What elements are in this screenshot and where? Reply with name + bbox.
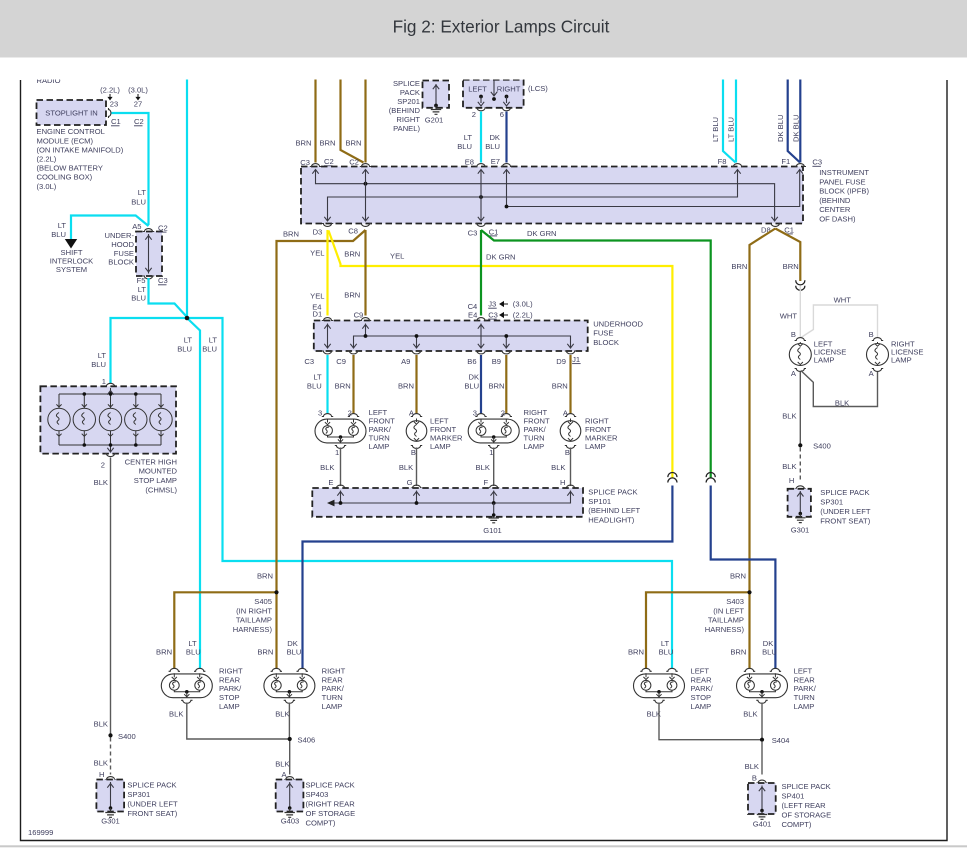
- svg-text:(UNDER LEFT: (UNDER LEFT: [127, 800, 178, 809]
- svg-text:G401: G401: [753, 820, 772, 829]
- net IPFB E8 to C3/C1: [478, 170, 484, 222]
- label BRN: [156, 647, 172, 656]
- label pin B: [752, 774, 757, 783]
- node splice S406: [288, 735, 316, 744]
- wire BRN C8 to underhood C9: [364, 230, 366, 316]
- label pin 6: [500, 110, 504, 119]
- svg-text:HARNESS): HARNESS): [233, 625, 273, 634]
- label BLK: [835, 398, 849, 407]
- svg-text:SYSTEM: SYSTEM: [56, 265, 87, 274]
- svg-text:J1: J1: [572, 355, 580, 364]
- svg-text:SP101: SP101: [588, 497, 611, 506]
- svg-text:2: 2: [501, 408, 505, 417]
- connector inline YEL to DK BLU: [668, 473, 677, 483]
- label G301: [791, 526, 810, 535]
- svg-text:LT: LT: [464, 133, 473, 142]
- wire LT BLU feed a: [723, 70, 736, 163]
- svg-text:C9: C9: [354, 311, 364, 320]
- svg-text:SP301: SP301: [820, 498, 843, 507]
- label BLK: [169, 710, 183, 719]
- wire LT BLU feed b: [735, 70, 737, 163]
- svg-text:DK: DK: [287, 639, 298, 648]
- label E4 pin: [312, 302, 321, 311]
- wire BRN radio feed 2: [341, 70, 364, 163]
- label C2 pin: [349, 158, 359, 167]
- svg-text:INSTRUMENT: INSTRUMENT: [819, 168, 869, 177]
- wire LT BLU from radio: [186, 70, 188, 318]
- svg-text:BLU: BLU: [464, 381, 479, 390]
- node splice S400: [108, 732, 135, 741]
- svg-text:LT: LT: [184, 336, 193, 345]
- label B9 pin: [492, 357, 501, 366]
- label BRN: [398, 381, 414, 390]
- label B: [565, 448, 570, 457]
- svg-text:BLU: BLU: [51, 230, 66, 239]
- label C3 connector 2.2L: [488, 311, 533, 320]
- label D9 pin: [556, 357, 566, 366]
- wire BRN S403 to left rear stop lamp: [646, 592, 750, 669]
- svg-text:DK BLU: DK BLU: [776, 115, 785, 142]
- svg-text:BLU: BLU: [485, 142, 500, 151]
- label BRN: [344, 290, 360, 299]
- label G101: [483, 526, 502, 535]
- svg-text:CENTER: CENTER: [819, 205, 851, 214]
- label BRN: [257, 647, 273, 656]
- svg-text:G101: G101: [483, 526, 502, 535]
- label C3 pin bottom: [304, 357, 314, 366]
- svg-text:(3.0L): (3.0L): [513, 300, 533, 309]
- wire BRN A9 to left front marker: [415, 355, 417, 414]
- wire LT BLU ECM pin 27 to A5: [112, 113, 149, 225]
- svg-text:FUSE: FUSE: [593, 329, 613, 338]
- svg-text:BLU: BLU: [186, 648, 201, 657]
- svg-text:BRN: BRN: [319, 139, 335, 148]
- label BLK: [275, 759, 289, 768]
- svg-text:BLK: BLK: [94, 759, 108, 768]
- svg-text:TAILLAMP: TAILLAMP: [236, 616, 272, 625]
- svg-text:S403: S403: [726, 597, 744, 606]
- label C4 pin: [468, 302, 478, 311]
- text right front park/turn lamp name: [524, 408, 551, 451]
- svg-text:SP301: SP301: [127, 790, 150, 799]
- svg-text:J3: J3: [488, 300, 496, 309]
- svg-text:H: H: [99, 770, 104, 779]
- label C1 connector: [489, 227, 499, 236]
- label C3 connector: [812, 158, 822, 167]
- node junction LT BLU: [185, 316, 190, 321]
- wire BLK left front park to SP101 E: [340, 448, 342, 487]
- svg-text:1: 1: [102, 377, 106, 386]
- wire DK BLU to right rear turn lamp: [303, 486, 673, 670]
- svg-text:BLU: BLU: [91, 360, 106, 369]
- node splice S404: [760, 736, 790, 745]
- svg-text:SPLICE PACK: SPLICE PACK: [782, 782, 831, 791]
- svg-text:LAMP: LAMP: [524, 442, 545, 451]
- label LT BLU vertical: [727, 117, 736, 142]
- svg-text:LAMP: LAMP: [891, 355, 912, 364]
- svg-text:LAMP: LAMP: [369, 442, 390, 451]
- svg-text:BLU: BLU: [659, 648, 674, 657]
- label G401: [753, 820, 772, 829]
- wire DK BLU feed a: [788, 70, 800, 163]
- label (3.0L) with arrow to pin 27: [128, 86, 148, 109]
- svg-text:DK: DK: [469, 372, 480, 381]
- svg-text:F8: F8: [718, 157, 727, 166]
- wire WHT branch to right license lamp B: [801, 305, 878, 338]
- svg-text:E: E: [328, 478, 333, 487]
- component CHMSL center high mounted stop lamp: [40, 383, 176, 456]
- wire LT BLU C3 to left front park pin3: [326, 355, 328, 414]
- svg-text:LAMP: LAMP: [430, 442, 451, 451]
- svg-text:BLU: BLU: [131, 294, 146, 303]
- svg-text:B: B: [869, 330, 874, 339]
- label G403: [281, 817, 300, 826]
- svg-text:B: B: [791, 330, 796, 339]
- svg-text:STOP: STOP: [691, 693, 712, 702]
- svg-text:BRN: BRN: [257, 571, 273, 580]
- svg-text:1: 1: [489, 448, 493, 457]
- text left front park/turn lamp name: [369, 408, 396, 451]
- svg-text:S405: S405: [254, 597, 272, 606]
- svg-text:PANEL): PANEL): [393, 124, 420, 133]
- wire BLK left rear turn to S404: [761, 703, 763, 740]
- component right rear park/stop lamp: [161, 668, 212, 703]
- label pin F: [483, 478, 488, 487]
- wire BLK right rear turn to S406: [288, 703, 290, 740]
- svg-text:BLU: BLU: [287, 648, 302, 657]
- label BLK: [320, 463, 334, 472]
- svg-text:C2: C2: [324, 157, 334, 166]
- component UNDERHOOD FUSE BLOCK (left): [104, 229, 162, 279]
- svg-text:(2.2L): (2.2L): [100, 86, 120, 95]
- label A: [869, 369, 875, 378]
- label BLK: [476, 463, 490, 472]
- wire YEL D3 to underhood E4/D1: [326, 230, 328, 316]
- svg-text:(IN RIGHT: (IN RIGHT: [236, 606, 272, 615]
- svg-text:SP401: SP401: [782, 792, 805, 801]
- label BRN: [283, 229, 299, 238]
- svg-text:C9: C9: [336, 357, 346, 366]
- net IPFB F8 to D3/E8: [324, 170, 740, 222]
- wire BRN D9 to right front marker: [569, 355, 571, 414]
- label YEL: [310, 291, 324, 300]
- component left front park/turn lamp: [315, 414, 366, 449]
- label BLK: [94, 478, 108, 487]
- component splice pack SP201 behind right panel: [423, 81, 450, 115]
- label BLK: [745, 762, 759, 771]
- label pin 2: [101, 461, 105, 470]
- label DK GRN: [527, 229, 557, 238]
- text SP301 name: [820, 488, 871, 526]
- wire BRN C9 to left front park pin2: [352, 355, 354, 414]
- svg-text:OF STORAGE: OF STORAGE: [306, 809, 356, 818]
- label pin H: [560, 478, 565, 487]
- svg-text:B: B: [411, 448, 416, 457]
- text CHMSL name: [125, 457, 178, 494]
- label F1 pin: [781, 157, 790, 166]
- svg-text:BLK: BLK: [320, 463, 334, 472]
- svg-text:C3: C3: [812, 158, 822, 167]
- label BLK: [743, 710, 757, 719]
- svg-text:BRN: BRN: [283, 229, 299, 238]
- svg-text:(CHMSL): (CHMSL): [145, 486, 177, 495]
- label 169999: [28, 828, 53, 837]
- wire BRN C8 to S405: [277, 230, 366, 591]
- label C3 pin: [468, 228, 478, 237]
- label G301: [101, 817, 120, 826]
- svg-text:RIGHT: RIGHT: [497, 85, 521, 94]
- svg-text:PANEL FUSE: PANEL FUSE: [819, 177, 865, 186]
- svg-text:BRN: BRN: [295, 139, 311, 148]
- text SP401 name: [782, 782, 832, 829]
- label C2 connector: [324, 157, 334, 166]
- component ECM STOPLIGHT IN box: [37, 100, 111, 125]
- label pin G: [407, 478, 413, 487]
- label DK BLU: [287, 639, 302, 657]
- label DK BLU: [485, 133, 500, 151]
- svg-text:LT: LT: [188, 639, 197, 648]
- svg-text:SP403: SP403: [306, 790, 329, 799]
- svg-text:ENGINE CONTROL: ENGINE CONTROL: [37, 127, 105, 136]
- label 1: [335, 448, 339, 457]
- svg-text:(ON INTAKE MANIFOLD): (ON INTAKE MANIFOLD): [37, 145, 124, 154]
- node splice S400: [798, 442, 831, 451]
- svg-text:FUSE: FUSE: [114, 249, 134, 258]
- svg-text:C1: C1: [489, 227, 499, 236]
- svg-text:MOUNTED: MOUNTED: [139, 467, 178, 476]
- svg-text:CENTER HIGH: CENTER HIGH: [125, 457, 177, 466]
- svg-text:(IN LEFT: (IN LEFT: [713, 606, 744, 615]
- svg-text:1: 1: [335, 448, 339, 457]
- svg-text:LT BLU: LT BLU: [727, 117, 736, 142]
- svg-text:(BEHIND LEFT: (BEHIND LEFT: [588, 506, 640, 515]
- svg-text:C3: C3: [304, 357, 314, 366]
- text ECM description: [37, 127, 124, 191]
- svg-text:A5: A5: [132, 222, 141, 231]
- svg-text:STOP: STOP: [219, 693, 240, 702]
- svg-text:(BELOW BATTERY: (BELOW BATTERY: [37, 164, 103, 173]
- label pin A: [282, 770, 288, 779]
- connector inline BRN to WHT: [796, 280, 805, 290]
- label F5: [137, 276, 146, 285]
- svg-text:BRN: BRN: [783, 262, 799, 271]
- svg-text:H: H: [560, 478, 565, 487]
- svg-text:(3.0L): (3.0L): [37, 182, 57, 191]
- label 2: [348, 408, 352, 417]
- component left front marker lamp: [406, 414, 427, 449]
- svg-text:BLU: BLU: [202, 344, 217, 353]
- svg-text:PARK/: PARK/: [322, 684, 345, 693]
- text right rear park/turn lamp name: [322, 666, 346, 711]
- svg-text:S404: S404: [772, 736, 790, 745]
- label YEL: [310, 249, 324, 258]
- svg-text:RIGHT: RIGHT: [396, 115, 420, 124]
- svg-text:LEFT: LEFT: [794, 666, 813, 675]
- svg-text:(UNDER LEFT: (UNDER LEFT: [820, 507, 871, 516]
- text SP301 name: [127, 781, 178, 819]
- svg-text:2: 2: [101, 461, 105, 470]
- label E8 pin: [465, 157, 474, 166]
- label BRN: [488, 381, 504, 390]
- svg-text:D3: D3: [313, 227, 323, 236]
- wire BLK left license lamp to S400: [799, 372, 801, 445]
- label C9 pin top: [354, 311, 364, 320]
- svg-text:YEL: YEL: [310, 249, 324, 258]
- label BLK: [782, 412, 796, 421]
- label LT BLU vertical: [711, 117, 720, 142]
- label C3 connector: [158, 276, 168, 285]
- label 1: [489, 448, 493, 457]
- svg-text:E7: E7: [491, 157, 500, 166]
- label A5: [132, 222, 141, 231]
- svg-text:G201: G201: [425, 116, 444, 125]
- svg-text:BLK: BLK: [94, 720, 108, 729]
- svg-text:COMPT): COMPT): [782, 820, 812, 829]
- label pin 2: [472, 110, 476, 119]
- node SHIFT INTERLOCK SYSTEM arrow: [50, 239, 93, 274]
- svg-text:COMPT): COMPT): [306, 819, 336, 828]
- component right rear park/turn lamp: [264, 668, 315, 703]
- svg-text:DK GRN: DK GRN: [486, 252, 516, 261]
- svg-text:UNDERHOOD: UNDERHOOD: [593, 319, 643, 328]
- component left rear park/stop lamp: [634, 668, 685, 703]
- wire BRN D8 to license lamps: [775, 229, 800, 282]
- svg-text:BLK: BLK: [551, 463, 565, 472]
- svg-text:G: G: [407, 478, 413, 487]
- text left rear park/turn lamp name: [794, 666, 817, 711]
- svg-text:PACK: PACK: [400, 88, 420, 97]
- connector inline DK GRN to DK BLU: [706, 473, 715, 483]
- label G201: [425, 116, 444, 125]
- svg-text:BRN: BRN: [552, 381, 568, 390]
- label A: [563, 408, 569, 417]
- svg-text:BLK: BLK: [745, 762, 759, 771]
- label pin E: [328, 478, 333, 487]
- label 3: [318, 408, 322, 417]
- svg-text:LAMP: LAMP: [814, 355, 835, 364]
- label C2 connector: [134, 117, 144, 126]
- label LT BLU: [659, 639, 674, 657]
- text left rear park/stop lamp name: [691, 666, 714, 711]
- label DK BLU: [762, 639, 777, 657]
- label C1 connector: [784, 225, 794, 234]
- wire WHT to left license lamp B: [799, 286, 801, 337]
- svg-text:F5: F5: [137, 276, 146, 285]
- label WHT: [780, 311, 798, 320]
- label B6 pin: [467, 357, 476, 366]
- svg-text:REAR: REAR: [691, 675, 713, 684]
- svg-text:(RIGHT REAR: (RIGHT REAR: [306, 800, 356, 809]
- svg-text:LAMP: LAMP: [794, 702, 815, 711]
- text underhood fuse block name: [593, 319, 643, 347]
- svg-text:(BEHIND: (BEHIND: [819, 196, 851, 205]
- svg-text:S400: S400: [118, 732, 136, 741]
- label BRN: [335, 381, 351, 390]
- svg-text:HARNESS): HARNESS): [705, 625, 745, 634]
- label BRN: [295, 139, 311, 148]
- component splice pack SP403 right rear of storage compt: [276, 777, 304, 818]
- svg-text:FRONT SEAT): FRONT SEAT): [820, 517, 870, 526]
- wire BRN radio feed 1: [314, 70, 316, 163]
- component right front marker lamp: [560, 414, 581, 449]
- svg-text:LT: LT: [209, 336, 218, 345]
- svg-text:LAMP: LAMP: [585, 442, 606, 451]
- svg-text:FRONT SEAT): FRONT SEAT): [127, 809, 177, 818]
- label DK GRN: [486, 252, 516, 261]
- label C3 pin: [300, 158, 310, 167]
- label pin H: [99, 770, 104, 779]
- label A9 pin: [401, 357, 410, 366]
- svg-text:BLU: BLU: [131, 197, 146, 206]
- svg-text:LT: LT: [58, 221, 67, 230]
- svg-text:(LCS): (LCS): [528, 84, 548, 93]
- label C1 connector: [111, 117, 121, 126]
- label B: [791, 330, 796, 339]
- svg-text:PARK/: PARK/: [794, 684, 817, 693]
- svg-text:(2.2L): (2.2L): [37, 155, 57, 164]
- label DK BLU vertical: [776, 115, 785, 142]
- svg-text:BLU: BLU: [177, 344, 192, 353]
- svg-text:OF STORAGE: OF STORAGE: [782, 811, 832, 820]
- label (LCS): [528, 84, 548, 93]
- svg-text:BLOCK (IPFB): BLOCK (IPFB): [819, 187, 869, 196]
- svg-text:COOLING BOX): COOLING BOX): [37, 173, 93, 182]
- label BRN: [731, 262, 747, 271]
- svg-text:RIGHT: RIGHT: [322, 666, 346, 675]
- svg-text:BLK: BLK: [476, 463, 490, 472]
- svg-text:HOOD: HOOD: [111, 240, 134, 249]
- svg-text:G301: G301: [791, 526, 810, 535]
- svg-text:LEFT: LEFT: [691, 666, 710, 675]
- svg-text:DK: DK: [489, 133, 500, 142]
- svg-text:C8: C8: [348, 227, 358, 236]
- wire DK GRN C3/C1 to underhood C4/E4: [480, 230, 482, 316]
- svg-text:BRN: BRN: [488, 381, 504, 390]
- label LT BLU: [51, 221, 66, 239]
- wire LT BLU junction to left rear stop lamp: [188, 318, 672, 669]
- svg-text:B6: B6: [467, 357, 476, 366]
- text right license lamp name: [891, 339, 924, 364]
- wire BRN B9 to right front park pin2: [505, 355, 507, 414]
- component right license lamp: [867, 338, 889, 372]
- svg-text:E8: E8: [465, 157, 474, 166]
- svg-text:SPLICE PACK: SPLICE PACK: [306, 781, 355, 790]
- svg-text:2: 2: [472, 110, 476, 119]
- label LT BLU: [457, 133, 472, 151]
- svg-text:D9: D9: [556, 357, 566, 366]
- wire BLK right front park to SP101 F: [493, 448, 495, 487]
- wire LT BLU junction to right rear stop lamp: [188, 319, 200, 669]
- svg-text:DK BLU: DK BLU: [792, 115, 801, 142]
- svg-text:F: F: [483, 478, 488, 487]
- label BLK: [94, 720, 108, 729]
- label BRN: [257, 571, 273, 580]
- component UNDERHOOD FUSE BLOCK: [314, 318, 588, 354]
- component instrument panel fuse block IPFB: [301, 164, 806, 227]
- label BRN: [730, 571, 746, 580]
- svg-text:B: B: [565, 448, 570, 457]
- svg-text:TAILLAMP: TAILLAMP: [708, 616, 744, 625]
- svg-text:C2: C2: [134, 117, 144, 126]
- text IPFB name: [819, 168, 869, 224]
- label LT BLU: [177, 336, 192, 354]
- text left license lamp name: [814, 339, 847, 364]
- label LT BLU: [131, 188, 146, 206]
- svg-text:169999: 169999: [28, 828, 53, 837]
- label LT BLU: [186, 639, 201, 657]
- text right front marker lamp name: [585, 417, 618, 452]
- svg-text:27: 27: [134, 100, 142, 109]
